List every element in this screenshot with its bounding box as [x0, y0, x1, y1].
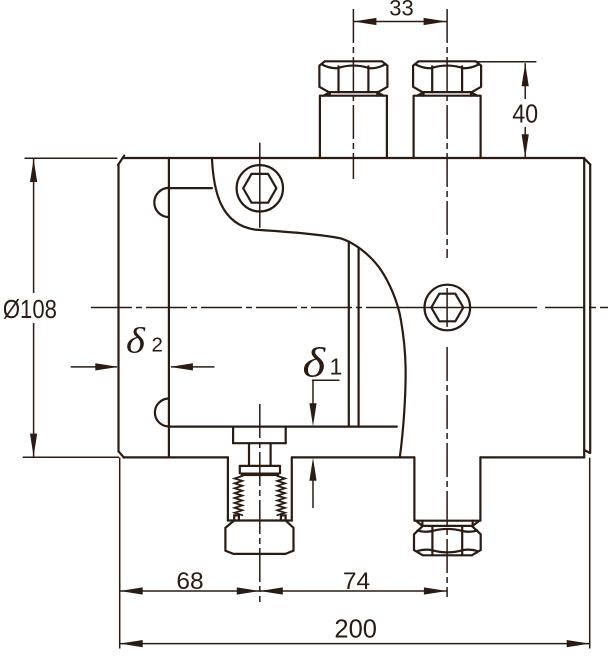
body left edge — [117, 165, 119, 452]
bolt B3 nut arcs — [418, 529, 478, 552]
socket screw S1 (upper-left) — [237, 165, 283, 211]
bolt B2 head arcs — [415, 64, 479, 68]
socket screw S2 (middle-right) — [425, 285, 471, 331]
dim d1 shoulder bar — [312, 379, 340, 381]
cavity profile curve — [212, 158, 406, 457]
upper U-slot semicircle — [154, 188, 169, 217]
centerline bolt B2 / screw S2 / bolt B3 axis — [446, 9, 448, 258]
dim 200 arrow right — [567, 640, 590, 647]
dim d1 lower arrow stem — [312, 480, 314, 508]
dim 40 arrow down — [522, 134, 529, 157]
body top-right chamfer — [584, 158, 590, 164]
main horizontal centerline — [91, 307, 391, 309]
dim 108 arrow up — [30, 159, 37, 182]
body bottom edge segment left — [124, 456, 228, 458]
thread foot left — [234, 515, 239, 520]
screw S1 hex socket — [243, 174, 276, 203]
lower U-slot semicircle — [155, 399, 169, 427]
dim d2 arrow right-pointing — [95, 363, 118, 370]
body top-left chamfer — [118, 156, 124, 166]
dimension 40 — [474, 62, 537, 157]
dim 200 line — [120, 643, 590, 645]
screw shank — [249, 443, 271, 466]
dim 33 arrow right — [424, 18, 447, 25]
dim 200 arrow left — [120, 640, 143, 647]
bolt B2 washer — [417, 92, 477, 96]
lower slot line — [169, 426, 397, 428]
dim d2 arrow left-pointing — [170, 363, 193, 370]
dim d1 arrow up — [309, 458, 316, 481]
centerline adjusting screw axis — [259, 404, 261, 602]
body right edge — [589, 164, 591, 453]
thread relief band — [241, 473, 280, 477]
centerlines — [91, 9, 608, 602]
screw collar — [240, 466, 280, 473]
bolt B3 nut facets — [432, 527, 462, 555]
bolt B1 head — [319, 61, 387, 92]
bolt B3 stem — [414, 457, 480, 520]
svg-text:Ø108: Ø108 — [3, 294, 57, 324]
svg-text:δ: δ — [126, 322, 146, 361]
body outline — [118, 156, 590, 458]
svg-text:1: 1 — [330, 354, 343, 380]
dim 108 bottom extension — [23, 456, 119, 458]
bolt B1 head facets — [339, 66, 369, 92]
counterbore ledge — [233, 442, 286, 444]
dim d1 upper arrow stem — [312, 380, 314, 404]
screw S2 circle — [425, 285, 471, 331]
dim 200 left extension — [119, 457, 121, 648]
boss outer walls — [228, 457, 292, 520]
dimension 68 and 74 — [120, 590, 447, 592]
dimension 200 — [120, 457, 590, 648]
body bottom edge segment right — [480, 456, 584, 458]
dimension delta1 — [312, 380, 340, 508]
svg-text:2: 2 — [152, 333, 163, 356]
svg-text:40: 40 — [512, 101, 538, 129]
thread zigzag left — [235, 476, 243, 515]
svg-text:33: 33 — [389, 0, 413, 21]
dim 33 line — [353, 21, 446, 23]
dim 68 arrow right — [237, 587, 260, 594]
bolt B1 washer — [324, 92, 384, 96]
dimension 33 — [353, 21, 446, 23]
bolt B1 stem — [320, 96, 387, 158]
svg-text:68: 68 — [176, 568, 203, 595]
svg-text:200: 200 — [334, 616, 377, 644]
dim 74 arrow left — [260, 587, 283, 594]
counterbore walls — [233, 427, 286, 444]
bolt B1 head arcs — [322, 64, 386, 68]
svg-text:74: 74 — [343, 568, 370, 595]
bolt B2 head — [413, 61, 481, 92]
dim 40 line — [524, 63, 526, 157]
centerline bolt B1 axis — [352, 9, 354, 179]
bolt B2 (top right) — [413, 61, 481, 158]
body right chamfer line — [583, 158, 585, 457]
slot groove right line — [358, 248, 360, 427]
body top edge — [124, 157, 585, 159]
dim 108 arrow down — [30, 434, 37, 457]
centerline screw S1 axis — [259, 143, 261, 228]
svg-text:δ: δ — [303, 339, 327, 386]
bolt B2 head facets — [432, 66, 462, 92]
bolt B1 (top left) — [319, 61, 387, 158]
dim d2 left arrow line — [71, 366, 117, 368]
bolt B3 (bottom right) — [414, 457, 481, 555]
dim 74 arrow right — [424, 587, 447, 594]
slot groove left line — [348, 242, 350, 427]
body bottom edge segment middle — [292, 456, 415, 458]
body bottom-left chamfer — [119, 451, 124, 457]
dim 40 arrow up — [522, 63, 529, 86]
dim 108 line — [33, 159, 35, 457]
screw S1 circle — [237, 165, 283, 211]
dim 200 right extension — [589, 458, 591, 649]
dimension delta2 — [71, 366, 215, 368]
adjusting screw assembly (bottom left) — [225, 427, 293, 554]
bolt B3 nut outline — [414, 526, 481, 555]
dim 108 top extension — [25, 157, 118, 159]
plate inner edge — [168, 158, 170, 457]
boss bottom line — [228, 519, 292, 521]
dim 33 arrow left — [353, 18, 376, 25]
dimension Ø108 — [23, 158, 119, 457]
knob outline — [225, 521, 293, 554]
dim 40 extension line — [474, 61, 537, 63]
bolt B2 stem — [414, 96, 481, 158]
dim d1 arrow down — [309, 403, 316, 426]
bolt B3 washer — [416, 521, 479, 526]
dim d2 right arrow line — [171, 366, 215, 368]
dim 68-74 line — [120, 590, 447, 592]
upper slot line — [169, 187, 212, 189]
dim 68 arrow left — [120, 587, 143, 594]
screw S2 hex socket — [431, 294, 463, 322]
thread zigzag right — [277, 476, 285, 515]
body bottom-right chamfer — [584, 450, 590, 453]
thread foot right — [281, 515, 286, 520]
